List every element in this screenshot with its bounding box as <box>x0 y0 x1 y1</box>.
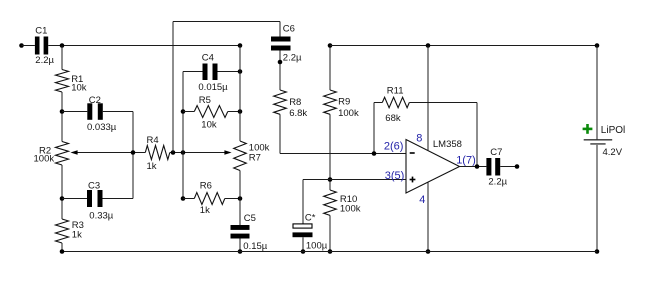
junction <box>171 150 176 155</box>
capacitor C1 <box>35 26 55 67</box>
svg-text:6.8k: 6.8k <box>289 108 307 119</box>
svg-text:C1: C1 <box>35 26 47 37</box>
junction <box>60 196 65 201</box>
wire <box>170 152 225 154</box>
wire <box>374 102 382 104</box>
wire <box>132 112 134 199</box>
junction <box>328 43 333 48</box>
svg-text:R11: R11 <box>387 85 404 96</box>
junction <box>238 43 243 48</box>
svg-text:R8: R8 <box>289 97 301 108</box>
junction <box>131 150 136 155</box>
svg-text:2.2µ: 2.2µ <box>488 177 507 188</box>
wire <box>329 114 331 190</box>
wire <box>228 111 240 113</box>
junction <box>426 249 431 254</box>
R2 wiper arrow <box>70 150 77 155</box>
wire <box>239 46 241 142</box>
svg-text:C6: C6 <box>283 24 295 35</box>
svg-text:4: 4 <box>419 194 425 206</box>
wire <box>239 239 241 252</box>
svg-text:C5: C5 <box>244 213 256 224</box>
resistor R2 (pot) <box>34 142 69 166</box>
junction <box>301 249 306 254</box>
junction <box>60 109 65 114</box>
wire <box>329 215 331 251</box>
capacitor C5 <box>231 213 268 252</box>
svg-text:100k: 100k <box>338 108 359 119</box>
svg-text:1k: 1k <box>72 230 82 241</box>
svg-text:100k: 100k <box>340 203 361 214</box>
svg-text:2.2µ: 2.2µ <box>35 55 54 66</box>
wire <box>329 46 331 91</box>
wire <box>183 198 194 200</box>
wire <box>61 243 63 252</box>
svg-text:4.2V: 4.2V <box>603 147 623 158</box>
junction <box>328 249 333 254</box>
junction <box>238 196 243 201</box>
svg-text:2.2µ: 2.2µ <box>283 52 302 63</box>
node input terminal <box>19 43 24 48</box>
capacitor C7 <box>486 147 507 188</box>
wire <box>279 51 281 91</box>
resistor R8 <box>274 90 308 119</box>
R7 wiper arrow <box>224 150 231 155</box>
junction <box>238 69 243 74</box>
resistor R6 <box>194 180 225 216</box>
resistor R9 <box>324 90 359 119</box>
svg-text:R9: R9 <box>338 97 350 108</box>
wire <box>172 22 174 153</box>
junction <box>372 151 377 156</box>
wire <box>22 45 35 47</box>
wire top positive rail <box>330 45 597 47</box>
svg-text:LiPOl: LiPOl <box>601 125 625 136</box>
wire inverting input <box>280 153 406 155</box>
wire <box>103 111 133 113</box>
junction <box>181 196 186 201</box>
svg-text:0.33µ: 0.33µ <box>89 211 113 222</box>
junction <box>181 109 186 114</box>
junction <box>238 249 243 254</box>
wire <box>182 72 184 199</box>
wire output <box>460 166 487 168</box>
wire <box>302 180 304 224</box>
wire pin 8 <box>427 46 429 151</box>
wire <box>62 111 87 113</box>
wire <box>279 114 281 153</box>
junction <box>60 249 65 254</box>
op-amp U1 LM358 <box>384 132 476 206</box>
svg-text:R4: R4 <box>147 135 159 146</box>
wire <box>279 22 281 37</box>
wire noninverting input <box>303 179 406 181</box>
svg-text:C7: C7 <box>490 147 502 158</box>
junction <box>426 43 431 48</box>
wire R2 wiper <box>78 152 146 154</box>
wire <box>183 71 203 73</box>
junction <box>238 109 243 114</box>
wire pin 4 <box>427 182 429 251</box>
node output terminal <box>515 164 520 169</box>
junction <box>181 150 186 155</box>
svg-text:LM358: LM358 <box>433 139 462 150</box>
resistor R3 <box>56 219 84 243</box>
resistor R5 <box>194 95 228 130</box>
svg-text:0.015µ: 0.015µ <box>198 82 228 93</box>
svg-text:1k: 1k <box>147 161 157 172</box>
svg-text:C4: C4 <box>202 53 214 64</box>
svg-text:10k: 10k <box>201 120 217 131</box>
resistor R4 <box>145 135 170 172</box>
wire <box>62 198 87 200</box>
svg-text:C2: C2 <box>89 95 101 106</box>
battery LiPOl 4.2V <box>583 124 626 158</box>
junction <box>595 43 600 48</box>
wire <box>183 111 194 113</box>
svg-text:1k: 1k <box>200 205 210 216</box>
svg-text:0.15µ: 0.15µ <box>243 241 267 252</box>
capacitor C3 <box>87 181 114 222</box>
wire bottom rail <box>62 251 597 253</box>
svg-text:0.033µ: 0.033µ <box>87 122 117 133</box>
junction <box>60 43 65 48</box>
wire <box>409 102 477 104</box>
svg-text:10k: 10k <box>71 82 87 93</box>
capacitor C2 <box>87 95 117 133</box>
wire <box>302 237 304 251</box>
resistor R7 (pot) <box>234 141 270 171</box>
svg-text:2(6): 2(6) <box>384 141 404 153</box>
capacitor C6 <box>271 24 302 64</box>
wire top rail <box>173 21 280 23</box>
capacitor C4 <box>198 53 228 93</box>
capacitor C* electrolytic <box>293 213 328 252</box>
wire <box>225 198 240 200</box>
junction <box>595 249 600 254</box>
svg-text:C*: C* <box>305 213 316 224</box>
wire <box>61 46 63 70</box>
svg-text:8: 8 <box>416 132 422 144</box>
wire <box>596 46 598 140</box>
svg-text:68k: 68k <box>385 113 401 124</box>
wire <box>596 145 598 252</box>
svg-text:3(5): 3(5) <box>385 170 405 182</box>
svg-text:1(7): 1(7) <box>456 154 476 166</box>
wire <box>218 71 241 73</box>
svg-text:100k: 100k <box>34 154 55 165</box>
svg-text:100µ: 100µ <box>306 241 328 252</box>
svg-text:R6: R6 <box>200 180 212 191</box>
wire <box>61 165 63 219</box>
resistor R10 <box>324 190 361 215</box>
wire <box>48 45 240 47</box>
wire <box>500 166 517 168</box>
resistor R11 <box>382 85 409 124</box>
resistor R1 <box>56 70 87 94</box>
wire <box>373 103 375 154</box>
wire <box>476 103 478 167</box>
svg-text:R5: R5 <box>199 95 211 106</box>
junction <box>475 164 480 169</box>
wire <box>239 171 241 226</box>
wire <box>61 92 63 142</box>
svg-text:R7: R7 <box>249 152 261 163</box>
junction <box>328 177 333 182</box>
svg-text:C3: C3 <box>88 181 100 192</box>
wire <box>103 198 134 200</box>
junction <box>278 60 283 65</box>
